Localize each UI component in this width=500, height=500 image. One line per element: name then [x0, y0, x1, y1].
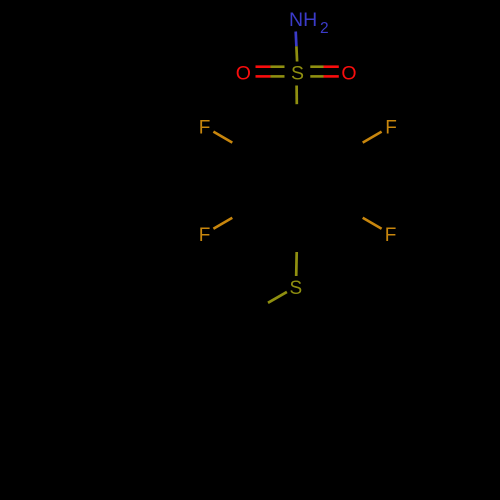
double bond S1=O left, upper line, sulfur half [270, 65, 284, 68]
bond C5-F bottom-left, fluorine half [213, 218, 232, 229]
svg-text:F: F [199, 225, 211, 246]
svg-text:S: S [289, 278, 302, 299]
svg-text:O: O [341, 63, 356, 85]
double bond S1=O right, lower line, red half [324, 75, 339, 78]
double bond S1=O right, lower line, sulfur half [310, 75, 323, 78]
bond N-S1, sulfur half [295, 46, 298, 61]
double bond S1=O right, upper line, red half [324, 65, 339, 68]
svg-text:F: F [199, 117, 211, 138]
bond C6-F top-left, fluorine half [213, 132, 232, 143]
svg-text:S: S [291, 63, 304, 85]
bond S2-CH2 (thioether to benzyl), sulfur half [268, 292, 287, 303]
bond C3-F bottom-right, fluorine half [363, 218, 382, 229]
svg-text:F: F [385, 225, 397, 246]
bond N-S1 (amide N to sulfonyl S), blue half [294, 32, 297, 47]
bond S1-C1 (to ring), sulfur half [295, 86, 298, 105]
bond C4-S2 (ring to thioether S), sulfur half [295, 252, 298, 276]
svg-text:O: O [236, 63, 251, 85]
double bond S1=O right, upper line, sulfur half [310, 65, 323, 68]
double bond S1=O left, lower line, red half [256, 75, 271, 78]
svg-text:F: F [385, 117, 397, 138]
bond C2-F top-right, fluorine half [363, 132, 382, 143]
double bond S1=O left, upper line, red half [256, 65, 271, 68]
double bond S1=O left, lower line, sulfur half [270, 75, 284, 78]
